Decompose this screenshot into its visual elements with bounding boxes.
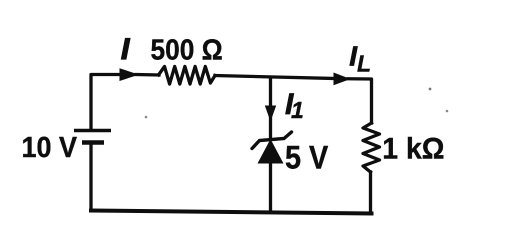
svg-text:5 V: 5 V [285,140,329,176]
current arrow I on top-left wire [120,68,140,81]
scan speck right of R2 [446,110,449,113]
svg-text:1 kΩ: 1 kΩ [382,133,444,166]
wire left vertical top (battery + to top-left corner) [91,75,120,131]
battery V1 long plate (+) [74,129,111,132]
current arrow IL on top-right wire [334,73,351,86]
wire top segment from R1 to I_L arrow [215,76,336,79]
scan speck left area [145,116,148,119]
wire zener branch bottom (diode to bottom rail) [269,162,272,212]
wire bottom rail [91,211,372,214]
svg-text:10 V: 10 V [22,131,78,163]
current arrow I1 on zener branch pointing down [265,106,276,122]
wire top segment from arrow I to resistor R1 [136,73,159,77]
svg-text:L: L [357,51,371,77]
svg-text:500 Ω: 500 Ω [151,33,223,65]
zener diode D1 cathode bar with bent ends [252,132,292,149]
svg-text:1: 1 [291,97,304,123]
zener diode D1 triangle (anode, pointing up) [258,139,284,164]
resistor R1 500 ohm zigzag [159,67,216,85]
svg-text:I: I [121,33,130,66]
scan speck near IL [429,88,432,91]
battery V1 short plate (-) [82,140,104,145]
wire right vertical bottom [369,172,372,213]
wire top-right corner into right branch [348,79,372,123]
resistor R2 1 kohm vertical zigzag [363,123,380,172]
wire left vertical bottom (battery - to bottom rail) [89,143,92,210]
wire zener branch top (junction to diode) [269,78,272,138]
